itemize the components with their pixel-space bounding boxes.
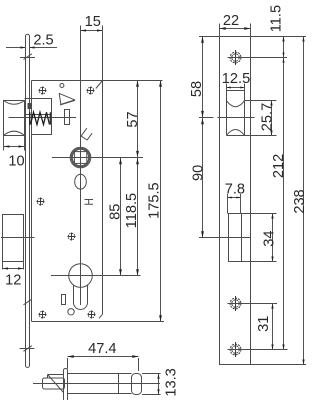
svg-text:7.8: 7.8 bbox=[225, 182, 245, 198]
svg-text:2.5: 2.5 bbox=[33, 33, 53, 49]
svg-text:57: 57 bbox=[125, 111, 141, 127]
svg-text:47.4: 47.4 bbox=[88, 341, 116, 357]
svg-text:15: 15 bbox=[85, 14, 101, 30]
svg-text:118.5: 118.5 bbox=[124, 193, 140, 228]
svg-text:31: 31 bbox=[256, 316, 272, 332]
svg-text:85: 85 bbox=[107, 204, 123, 220]
svg-text:238: 238 bbox=[292, 189, 306, 213]
svg-text:175.5: 175.5 bbox=[146, 182, 162, 219]
svg-text:13.3: 13.3 bbox=[164, 368, 180, 396]
svg-text:12.5: 12.5 bbox=[222, 71, 250, 87]
svg-text:10: 10 bbox=[8, 153, 24, 169]
svg-text:25.7: 25.7 bbox=[259, 103, 275, 131]
svg-text:34: 34 bbox=[261, 230, 277, 246]
svg-text:11.5: 11.5 bbox=[269, 5, 285, 32]
svg-text:22: 22 bbox=[223, 13, 239, 29]
svg-text:12: 12 bbox=[5, 272, 21, 288]
svg-text:212: 212 bbox=[271, 154, 287, 178]
svg-text:58: 58 bbox=[189, 81, 205, 97]
svg-text:90: 90 bbox=[191, 165, 207, 181]
